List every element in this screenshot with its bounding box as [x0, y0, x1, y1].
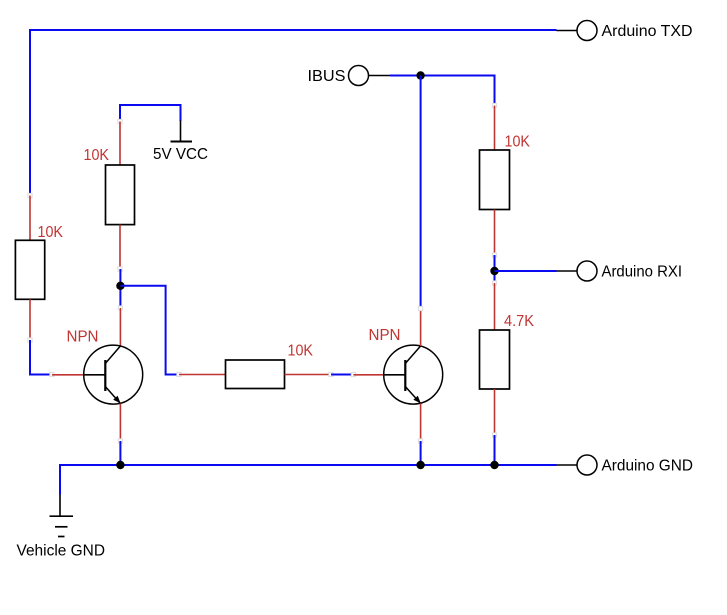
- power symbol 5V VCC stem: [180, 121, 182, 142]
- pin R3 top: [494, 106, 496, 151]
- wire Q1 emitter to GND: [119, 441, 121, 465]
- pin marker Q1 base: [50, 372, 54, 376]
- wire Q2 emitter to GND: [420, 441, 422, 465]
- transistor Q2 emitter arrow: [413, 396, 420, 404]
- pin R1 top: [29, 196, 31, 241]
- svg-text:NPN: NPN: [369, 327, 401, 344]
- wire IBUS down to Q2 collector: [420, 76, 422, 309]
- junction dot GND Q2: [416, 461, 424, 469]
- pin marker Q2 collector: [419, 306, 423, 310]
- terminal lead IBUS: [369, 75, 391, 77]
- resistor R5 10K body: [226, 360, 285, 389]
- pin Q2 collector (red, from wire end): [420, 309, 422, 347]
- pin marker R1 bottom: [28, 338, 32, 342]
- pin Q1 collector: [119, 308, 121, 346]
- pin marker R5 right: [329, 372, 333, 376]
- pin marker R4 top: [492, 281, 496, 285]
- wire R5 to Q2 base: [331, 374, 353, 376]
- pin marker R4 bottom: [492, 433, 496, 437]
- resistor R2 10K body: [106, 165, 135, 225]
- terminal lead Arduino RXI: [557, 270, 577, 272]
- svg-text:4.7K: 4.7K: [504, 313, 535, 330]
- pin marker R2 top: [118, 119, 122, 123]
- ground symbol bar 1: [50, 515, 74, 517]
- pin marker Q1 emitter: [118, 439, 122, 443]
- pin Q2 emitter: [420, 404, 422, 442]
- svg-text:10K: 10K: [288, 343, 314, 360]
- wire GND bus horizontal: [60, 464, 557, 466]
- transistor Q1 collector line: [105, 346, 120, 364]
- pin R5 left: [179, 374, 226, 376]
- ground symbol bar 2: [55, 526, 68, 528]
- pin R4 top: [494, 283, 496, 330]
- pin R5 right: [285, 374, 332, 376]
- wire net TXD vertical left: [29, 29, 31, 196]
- terminal lead Arduino GND: [557, 464, 577, 466]
- junction dot IBUS/collector: [416, 71, 424, 79]
- transistor Q2 collector line: [405, 346, 420, 364]
- power symbol 5V VCC bar: [171, 141, 193, 143]
- wire GND left down: [59, 464, 61, 495]
- transistor Q1 circle: [84, 345, 143, 404]
- ground symbol stem: [59, 495, 61, 517]
- pin marker Q2 base: [351, 372, 355, 376]
- svg-text:Vehicle GND: Vehicle GND: [17, 543, 106, 560]
- transistor Q2 base bar: [404, 360, 406, 391]
- junction dot Q1 collector: [116, 282, 124, 290]
- wire R4 to GND: [494, 435, 496, 465]
- pin marker Q2 emitter: [419, 439, 423, 443]
- wire net TXD horizontal: [29, 29, 557, 31]
- pin marker R5 left: [177, 372, 181, 376]
- svg-text:Arduino GND: Arduino GND: [602, 458, 694, 475]
- svg-text:IBUS: IBUS: [308, 68, 346, 85]
- wire junction to right corner: [120, 286, 179, 375]
- resistor R4 4.7K body: [480, 330, 510, 389]
- svg-text:5V VCC: 5V VCC: [153, 146, 208, 163]
- resistor R1 10K body: [15, 240, 44, 299]
- svg-text:NPN: NPN: [67, 329, 99, 346]
- transistor Q1 base bar: [104, 360, 106, 391]
- ground symbol bar 3: [58, 536, 65, 538]
- pin R2 top: [119, 122, 121, 166]
- junction dot GND R4: [490, 461, 498, 469]
- pin R3 bottom: [494, 210, 496, 256]
- pin marker Q1 collector: [118, 306, 122, 310]
- pin R2 bottom: [119, 225, 121, 269]
- terminal circle Arduino GND: [577, 455, 597, 475]
- terminal circle Arduino TXD: [577, 21, 597, 41]
- svg-text:10K: 10K: [505, 134, 531, 151]
- pin Q2 base: [353, 374, 384, 376]
- wire IBUS horizontal: [390, 75, 495, 77]
- svg-text:10K: 10K: [84, 147, 110, 164]
- transistor Q2 emitter line: [405, 387, 420, 404]
- transistor Q1 emitter line: [105, 387, 120, 404]
- wire R3 to RXI junction: [494, 255, 496, 283]
- pin R4 bottom: [494, 389, 496, 435]
- terminal circle Arduino RXI: [577, 261, 597, 281]
- transistor Q1 emitter arrow: [113, 396, 120, 404]
- pin Q1 base: [52, 374, 84, 376]
- junction dot RXI: [490, 267, 498, 275]
- pin marker R1 top: [28, 193, 32, 197]
- transistor Q2 base line: [384, 374, 405, 376]
- junction dot GND Q1: [116, 461, 124, 469]
- pin R1 bottom: [29, 299, 31, 340]
- resistor R3 10K body: [480, 150, 510, 210]
- terminal circle IBUS: [349, 66, 369, 86]
- pin marker R3 top: [492, 103, 496, 107]
- pin marker R3 bottom: [492, 253, 496, 257]
- wire R1 to Q1 base horizontal: [29, 374, 52, 376]
- svg-text:Arduino RXI: Arduino RXI: [602, 264, 683, 281]
- terminal lead Arduino TXD: [557, 30, 577, 32]
- pin Q1 emitter: [119, 404, 121, 442]
- wire IBUS down right to R3: [494, 75, 496, 106]
- wire R1 to Q1 base vertical: [29, 340, 31, 376]
- wire RXI horizontal: [495, 270, 557, 272]
- wire VCC corner: [120, 105, 181, 122]
- wire R2 to collector junction: [119, 269, 121, 308]
- pin marker R2 bottom: [118, 267, 122, 271]
- transistor Q1 base line: [84, 374, 105, 376]
- svg-text:10K: 10K: [38, 224, 64, 241]
- svg-text:Arduino TXD: Arduino TXD: [602, 23, 693, 40]
- transistor Q2 circle: [384, 345, 443, 404]
